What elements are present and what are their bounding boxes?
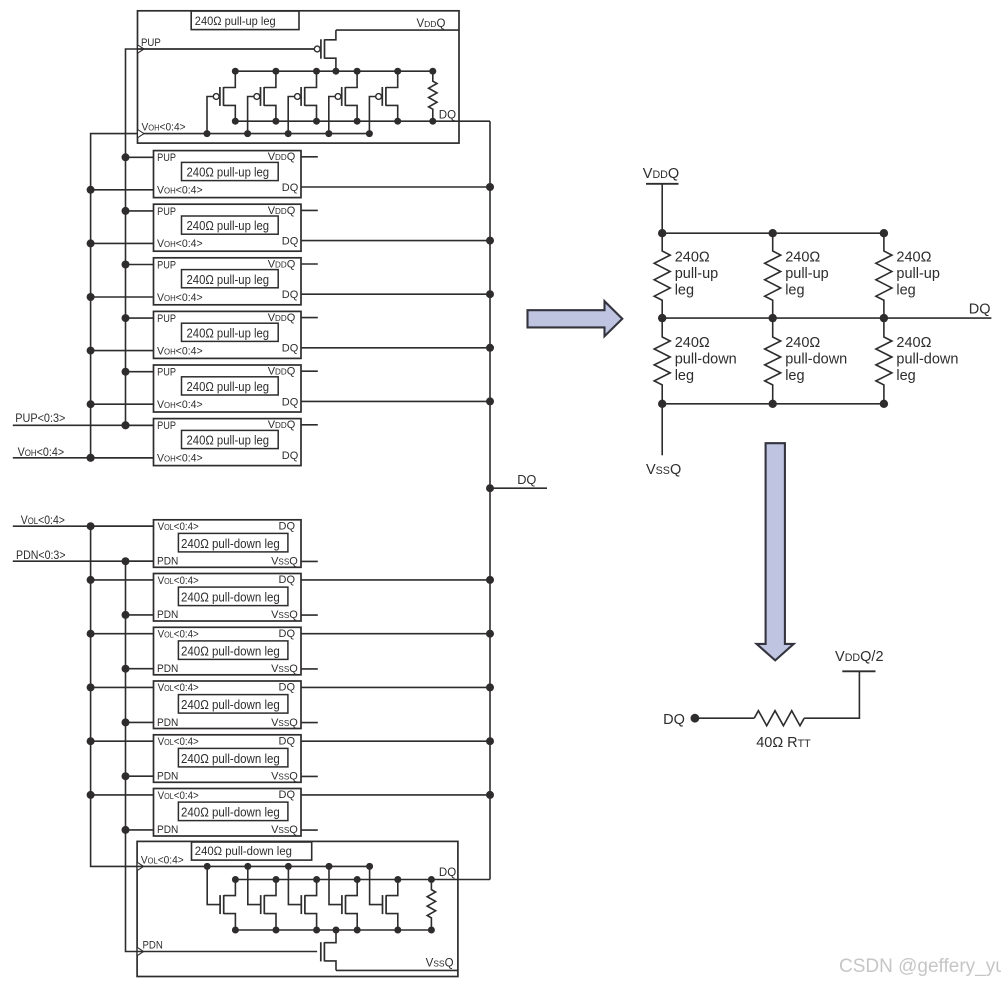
pull-up leg block B6 box (154, 419, 302, 466)
label 240ohm pull-down leg (B7) (181, 536, 280, 551)
node PUP junction (B6) (122, 421, 130, 429)
node QN4 drain junction (354, 876, 361, 883)
svg-text:DQ: DQ (282, 182, 299, 194)
svg-text:leg: leg (896, 283, 915, 299)
svg-text:leg: leg (785, 283, 804, 299)
node top rail junction 3 (880, 229, 888, 237)
wire PUP lead (B5) (126, 371, 154, 373)
wire VSSQ stub (B10) (301, 722, 318, 724)
node PDN junction (B12) (122, 826, 130, 834)
port arrow VOL (U2) (137, 862, 144, 870)
wire PUP lead (B2) (126, 210, 154, 212)
wire PDN lead (B11) (126, 775, 154, 777)
node QP2 source junction (272, 118, 279, 125)
node DQ junction (B12) (486, 791, 494, 799)
pull-down leg block B8 box (154, 574, 302, 622)
transistor QP1 parallel PMOS (U1) (207, 71, 235, 133)
node PDN junction (B8) (122, 611, 130, 619)
wire VOH lead (B6) (91, 457, 154, 459)
wire VOL lead (B8) (91, 579, 154, 581)
wire DQ lead (B11) (301, 740, 490, 742)
svg-text:VOH<0:4>: VOH<0:4> (18, 446, 65, 459)
node PUP<0:3> bus junction (122, 421, 130, 429)
node VOH junction (B1) (87, 186, 95, 194)
svg-text:240Ω pull-up leg: 240Ω pull-up leg (187, 326, 270, 341)
node VOL junction (B10) (87, 683, 95, 691)
wire VOL lead (B11) (91, 740, 154, 742)
wire PUP<0:3> input line (13, 424, 154, 426)
node QN2 source junction (273, 927, 280, 934)
wire DQ lead (B8) (301, 579, 490, 581)
node QP2 drain junction (272, 68, 279, 75)
wire DQ rail (U2) to DQ bus (235, 879, 490, 881)
label VOH<0:4> (B5) (157, 399, 203, 411)
node QP4 drain junction (354, 68, 361, 75)
svg-text:240Ω pull-up leg: 240Ω pull-up leg (187, 165, 270, 180)
svg-text:leg: leg (785, 368, 804, 384)
label VOH<0:4> (input) (18, 446, 65, 459)
label 240ohm pull-up leg (B4) (187, 326, 270, 341)
node QN5 source junction (394, 927, 401, 934)
wire PDN bus vertical (126, 561, 138, 951)
node top rail junction 2 (769, 229, 777, 237)
label 240ohm pull-down leg (B11) (181, 751, 280, 766)
svg-text:VOH<0:4>: VOH<0:4> (157, 184, 203, 196)
svg-text:240Ω pull-down leg: 240Ω pull-down leg (181, 590, 280, 605)
block arrow pointing right (528, 301, 623, 336)
svg-text:PDN: PDN (157, 824, 178, 836)
node DQ stub junction (486, 484, 494, 492)
node QN0 drain junction on source rail (333, 927, 340, 934)
svg-text:PDN: PDN (157, 770, 178, 782)
svg-text:DQ: DQ (282, 343, 299, 355)
pull-down leg block B8 title box (178, 587, 288, 606)
node bottom rail junction 2 (769, 400, 777, 408)
svg-text:VSSQ: VSSQ (646, 462, 681, 478)
label VOL<0:4> (U2) (141, 854, 184, 867)
label 240ohm pull-down leg (U2 title) (195, 846, 292, 858)
label VOH<0:4> (B4) (157, 345, 203, 357)
wire VOL bus vertical (91, 526, 138, 866)
node QP4 gate junction (325, 130, 332, 137)
label VOL<0:4> (B11) (158, 737, 199, 749)
wire PDN lead (B12) (126, 829, 154, 831)
svg-text:VOL<0:4>: VOL<0:4> (158, 737, 199, 749)
svg-text:240Ω: 240Ω (785, 250, 820, 266)
wire DQ lead (B4) (301, 347, 490, 349)
node DQ junction (B11) (486, 737, 494, 745)
resistor R2 240ohm (U2) (427, 880, 435, 931)
resistor RPU2 240ohm pull-up (simplified) (765, 233, 781, 318)
pull-up leg block B2 box (154, 204, 302, 251)
transistor QN2 parallel NMOS (U2) (248, 866, 276, 930)
node QP2 gate junction (244, 130, 251, 137)
svg-text:VSSQ: VSSQ (271, 824, 298, 836)
label VOH<0:4> (B6) (157, 452, 203, 464)
wire PUP gate line (U1) (138, 48, 315, 50)
wire PDN lead (B10) (126, 721, 154, 723)
pull-down leg block B10 title box (178, 695, 288, 714)
resistor RPU1 240ohm pull-up (simplified) (654, 233, 670, 318)
transistor QP5 parallel PMOS (U1) (369, 71, 397, 133)
node PUP junction (B4) (122, 314, 130, 322)
svg-text:pull-down: pull-down (675, 352, 737, 368)
node R1 top junction (429, 68, 436, 75)
wire VOL lead (B9) (91, 633, 154, 635)
wire VOH<0:4> input line (13, 457, 154, 459)
label 240ohm pull-down leg (B8) (181, 590, 280, 605)
node PUP junction (B2) (122, 207, 130, 215)
svg-text:DQ: DQ (282, 450, 299, 462)
transistor QP0 enable PMOS (U1) (314, 30, 336, 71)
wire PMOS source rail (U1) (235, 70, 432, 72)
label PUP<0:3> (15, 413, 65, 426)
svg-text:PDN: PDN (157, 716, 178, 728)
svg-text:240Ω: 240Ω (675, 250, 710, 266)
transistor QN3 parallel NMOS (U2) (288, 866, 316, 930)
label PDN<0:3> (16, 550, 66, 563)
node QP1 source junction (232, 118, 239, 125)
wire DQ rail (simplified) (662, 317, 991, 319)
transistor QN5 parallel NMOS (U2) (370, 866, 398, 930)
wire VOH lead (B3) (91, 296, 154, 298)
svg-text:240Ω: 240Ω (675, 335, 710, 351)
port arrow VOH (U1) (138, 129, 145, 137)
svg-text:VSSQ: VSSQ (271, 663, 298, 675)
pull-up leg block B3 box (154, 258, 302, 305)
svg-text:DQ: DQ (279, 735, 296, 747)
wire VDDQ stub (B4) (301, 317, 318, 319)
svg-text:VOL<0:4>: VOL<0:4> (158, 629, 199, 641)
label PUP (U1) (141, 36, 161, 49)
wire VDDQ stub (B5) (301, 370, 318, 372)
label VOH<0:4> (B3) (157, 292, 203, 304)
wire VSSQ stub (B11) (301, 775, 318, 777)
pull-up leg block B5 title box (182, 377, 279, 395)
svg-text:VDDQ: VDDQ (417, 18, 446, 30)
node QN1 source junction (232, 927, 239, 934)
wire VDDQ stub (B2) (301, 209, 318, 211)
node QP4 source junction (354, 118, 361, 125)
svg-text:VOH<0:4>: VOH<0:4> (157, 399, 203, 411)
wire DQ lead (B3) (301, 293, 490, 295)
label PDN (U2) (143, 939, 163, 952)
svg-text:CSDN @geffery_yu: CSDN @geffery_yu (839, 956, 1001, 977)
node VOL junction (B12) (87, 791, 95, 799)
label 240ohm pull-up leg (U1 title) (195, 16, 276, 28)
wire DQ lead (B2) (301, 240, 490, 242)
label 240ohm pull-up leg (B6) (187, 433, 270, 448)
svg-text:240Ω: 240Ω (896, 250, 931, 266)
node QN4 source junction (354, 927, 361, 934)
svg-text:VOH<0:4>: VOH<0:4> (157, 452, 203, 464)
label PDN (B12) (157, 824, 178, 836)
svg-text:VDDQ: VDDQ (268, 205, 296, 217)
node PUP junction (B3) (122, 261, 130, 269)
wire DQ rail (U1) to DQ bus (235, 120, 490, 122)
svg-text:VDDQ: VDDQ (268, 258, 296, 270)
svg-text:PUP: PUP (157, 260, 176, 272)
wire VOH lead (B2) (91, 242, 154, 244)
wire VSSQ feed (661, 404, 663, 456)
label PUP (B5) (157, 367, 176, 379)
label PDN (B10) (157, 716, 178, 728)
transistor QP2 parallel PMOS (U1) (248, 71, 276, 133)
svg-text:240Ω pull-down leg: 240Ω pull-down leg (181, 644, 280, 659)
svg-text:PDN: PDN (157, 609, 178, 621)
node DQ terminal (691, 714, 700, 723)
node R2 top junction (428, 876, 435, 883)
svg-text:DQ: DQ (282, 396, 299, 408)
svg-text:DQ: DQ (282, 289, 299, 301)
svg-text:240Ω pull-down leg: 240Ω pull-down leg (195, 846, 292, 858)
node bottom rail junction 3 (880, 400, 888, 408)
node VOH<0:4> bus junction (87, 454, 95, 462)
svg-text:DQ: DQ (279, 520, 296, 532)
svg-text:PDN: PDN (157, 663, 178, 675)
wire VDDQ feed (661, 184, 663, 233)
wire PDN gate line (U2) (137, 951, 317, 953)
svg-text:VSSQ: VSSQ (271, 717, 298, 729)
label 240ohm pull-down leg (B12) (181, 805, 280, 820)
label PUP (B3) (157, 260, 176, 272)
wire VOL lead (B7) (91, 525, 154, 527)
wire DQ stub (490, 487, 547, 489)
label VOH<0:4> (B1) (157, 184, 203, 196)
pull-up leg block B4 box (154, 311, 302, 358)
node QP1 gate junction (204, 130, 211, 137)
svg-text:pull-down: pull-down (896, 352, 958, 368)
wire DQ lead (B9) (301, 633, 490, 635)
svg-text:VDDQ: VDDQ (268, 366, 296, 378)
svg-text:240Ω pull-up leg: 240Ω pull-up leg (195, 16, 276, 28)
pull-up leg detail block U1 title box (191, 11, 299, 30)
node R1 bottom junction (429, 118, 436, 125)
label VOL<0:4> (input) (21, 515, 65, 528)
transistor QP4 parallel PMOS (U1) (329, 71, 357, 133)
transistor QP3 parallel PMOS (U1) (288, 71, 316, 133)
pull-down leg detail block U2 outer box (137, 841, 458, 976)
block arrow pointing down (757, 443, 794, 660)
node R2 bottom junction (428, 927, 435, 934)
node QP5 gate junction (366, 130, 373, 137)
wire VOH lead (B4) (91, 350, 154, 352)
svg-text:240Ω pull-up leg: 240Ω pull-up leg (187, 433, 270, 448)
svg-text:PUP<0:3>: PUP<0:3> (15, 413, 65, 426)
svg-text:VOH<0:4>: VOH<0:4> (157, 345, 203, 357)
pull-up leg block B1 box (154, 151, 302, 198)
svg-text:DQ: DQ (439, 867, 456, 879)
wire PDN lead (B8) (126, 614, 154, 616)
node QN3 source junction (313, 927, 320, 934)
wire VDDQ stub (B1) (301, 156, 318, 158)
wire VSSQ stub (B8) (301, 614, 318, 616)
pull-down leg block B12 box (154, 789, 302, 837)
label 240ohm pull-up leg (B3) (187, 272, 270, 287)
svg-text:240Ω pull-down leg: 240Ω pull-down leg (181, 805, 280, 820)
svg-text:PUP: PUP (141, 36, 161, 49)
wire PDN<0:3> input line (13, 560, 154, 562)
svg-text:leg: leg (896, 368, 915, 384)
svg-text:DQ: DQ (279, 628, 296, 640)
label VOL<0:4> (B9) (158, 629, 199, 641)
svg-text:PUP: PUP (157, 153, 176, 165)
svg-text:VSSQ: VSSQ (271, 771, 298, 783)
node VOH junction (B3) (87, 293, 95, 301)
pull-up leg detail block U1 outer box (138, 11, 460, 143)
svg-text:VOH<0:4>: VOH<0:4> (157, 238, 203, 250)
svg-text:VSSQ: VSSQ (271, 609, 298, 621)
svg-text:leg: leg (675, 283, 694, 299)
node PUP junction (B1) (122, 153, 130, 161)
wire VOL lead (B12) (91, 794, 154, 796)
svg-text:240Ω pull-down leg: 240Ω pull-down leg (181, 536, 280, 551)
node DQ junction (B10) (486, 683, 494, 691)
svg-text:DQ: DQ (279, 574, 296, 586)
power rail VDDQ bar (646, 183, 679, 185)
node QP3 gate junction (285, 130, 292, 137)
node QN3 drain junction (313, 876, 320, 883)
node VOL junction (B11) (87, 737, 95, 745)
svg-text:VOH<0:4>: VOH<0:4> (157, 292, 203, 304)
node DQ junction (B8) (486, 576, 494, 584)
node QN5 drain junction (394, 876, 401, 883)
pull-down leg block B7 title box (178, 533, 288, 552)
node QN2 gate junction (244, 863, 251, 870)
wire DQ lead (B10) (301, 686, 490, 688)
label PDN (B7) (157, 555, 178, 567)
wire VOH gate bus (U1) (138, 133, 370, 135)
label 240ohm pull-up leg (B5) (187, 379, 270, 394)
svg-text:DQ: DQ (663, 712, 685, 728)
wire VDDQ stub (B3) (301, 263, 318, 265)
svg-text:VSSQ: VSSQ (426, 958, 454, 970)
svg-text:VOL<0:4>: VOL<0:4> (158, 790, 199, 802)
wire DQ vertical bus (489, 121, 491, 879)
wire VSSQ rail (U2) (336, 969, 458, 971)
transistor QN4 parallel NMOS (U2) (329, 866, 357, 930)
node DQ rail junction 2 (769, 314, 777, 322)
node DQ junction (B9) (486, 630, 494, 638)
wire PUP bus vertical (126, 49, 315, 425)
node DQ rail junction 1 (658, 314, 666, 322)
svg-text:DQ: DQ (517, 472, 536, 487)
svg-text:VDDQ: VDDQ (268, 312, 296, 324)
svg-text:240Ω pull-down leg: 240Ω pull-down leg (181, 751, 280, 766)
pull-down leg block B11 box (154, 735, 302, 783)
label PUP (B6) (157, 421, 176, 433)
node QP0 drain junction on source rail (332, 68, 339, 75)
label PUP (B1) (157, 153, 176, 165)
svg-text:VOL<0:4>: VOL<0:4> (158, 683, 199, 695)
node DQ rail junction 3 (880, 314, 888, 322)
node DQ junction (B2) (486, 237, 494, 245)
label 240ohm pull-up leg (B2) (187, 218, 270, 233)
svg-text:240Ω: 240Ω (896, 335, 931, 351)
svg-text:VDDQ/2: VDDQ/2 (835, 649, 883, 665)
resistor RPU3 240ohm pull-up (simplified) (876, 233, 892, 318)
node QN5 gate junction (366, 863, 373, 870)
wire VOL gate bus (U2) (137, 865, 370, 867)
svg-text:DQ: DQ (282, 236, 299, 248)
node PDN junction (B7) (122, 557, 130, 565)
svg-text:VSSQ: VSSQ (271, 556, 298, 568)
svg-text:DQ: DQ (279, 789, 296, 801)
wire VDDQ stub (B6) (301, 424, 318, 426)
wire PUP lead (B3) (126, 264, 154, 266)
svg-text:240Ω: 240Ω (785, 335, 820, 351)
svg-text:240Ω pull-down leg: 240Ω pull-down leg (181, 697, 280, 712)
power rail VDDQ/2 bar (842, 670, 875, 672)
node QN2 drain junction (273, 876, 280, 883)
pull-down leg block B9 title box (178, 641, 288, 660)
svg-text:DQ: DQ (969, 302, 991, 318)
label PDN (B9) (157, 663, 178, 675)
pull-up leg block B1 title box (182, 162, 279, 180)
svg-text:PDN: PDN (143, 939, 163, 952)
wire VDDQ/2 feed (804, 671, 859, 718)
node DQ junction (B3) (486, 290, 494, 298)
wire DQ lead (B12) (301, 794, 490, 796)
node PUP junction (B5) (122, 368, 130, 376)
svg-text:pull-down: pull-down (785, 352, 847, 368)
label VOL<0:4> (B10) (158, 683, 199, 695)
node bottom rail junction 1 (658, 400, 666, 408)
svg-text:PDN<0:3>: PDN<0:3> (16, 550, 66, 563)
svg-text:PDN: PDN (157, 555, 178, 567)
node QP1 drain junction (232, 68, 239, 75)
label PDN (B8) (157, 609, 178, 621)
label VOL<0:4> (B12) (158, 790, 199, 802)
transistor QN1 parallel NMOS (U2) (207, 866, 235, 930)
wire PUP lead (B4) (126, 317, 154, 319)
node QN3 gate junction (285, 863, 292, 870)
node QP3 drain junction (313, 68, 320, 75)
label 240ohm pull-down leg (B10) (181, 697, 280, 712)
node VOL junction (B7) (87, 522, 95, 530)
pull-up leg block B6 title box (182, 430, 279, 448)
resistor R1 240ohm (U1) (429, 71, 437, 121)
svg-text:pull-up: pull-up (675, 266, 719, 282)
label PUP (B2) (157, 206, 176, 218)
svg-text:PUP: PUP (157, 367, 176, 379)
resistor RPD3 240ohm pull-down (simplified) (876, 318, 892, 404)
port arrow PDN (U2) (137, 947, 144, 955)
svg-text:leg: leg (675, 368, 694, 384)
node VOH junction (B5) (87, 400, 95, 408)
svg-text:VDDQ: VDDQ (268, 151, 296, 163)
svg-text:VOL<0:4>: VOL<0:4> (158, 575, 199, 587)
pull-up leg block B4 title box (182, 323, 279, 341)
label VOL<0:4> (B8) (158, 575, 199, 587)
label VOH<0:4> (U1) (142, 121, 186, 134)
svg-text:VOL<0:4>: VOL<0:4> (21, 515, 65, 528)
pull-up leg block B3 title box (182, 270, 279, 288)
node DQ junction (B5) (486, 397, 494, 405)
pull-down leg block B11 title box (178, 748, 288, 767)
wire PDN lead (B9) (126, 668, 154, 670)
svg-text:DQ: DQ (439, 110, 456, 122)
wire VOL lead (B10) (91, 686, 154, 688)
label 240ohm pull-up leg (B1) (187, 165, 270, 180)
wire bottom rail (simplified) (662, 403, 884, 405)
pull-down leg block B7 box (154, 520, 302, 568)
node VOL junction (B9) (87, 630, 95, 638)
wire VSSQ stub (B7) (301, 560, 318, 562)
svg-text:40Ω RTT: 40Ω RTT (756, 735, 811, 751)
node QN1 gate junction (204, 863, 211, 870)
svg-text:PUP: PUP (157, 421, 176, 433)
